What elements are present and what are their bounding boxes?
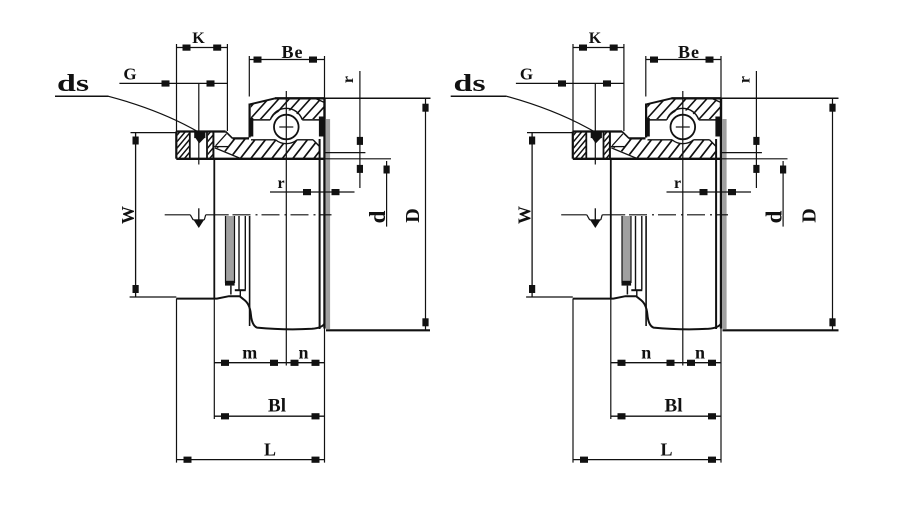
leader line from ds to set screw xyxy=(109,96,198,131)
svg-text:W: W xyxy=(515,206,535,224)
outer ring ball groove arc xyxy=(270,108,302,119)
label D rotated xyxy=(799,208,821,222)
dimension n and n line with arrows xyxy=(611,360,721,366)
outer ring top-left chamfer xyxy=(647,98,672,104)
dimension r horizontal line with arrows xyxy=(270,189,355,195)
r reference line xyxy=(326,152,366,154)
svg-text:Bl: Bl xyxy=(268,396,286,417)
locking collar left face xyxy=(175,132,177,159)
dimension K line with arrows xyxy=(573,45,624,51)
right seal xyxy=(715,117,721,137)
svg-text:D: D xyxy=(799,208,821,222)
outer ring left face xyxy=(645,104,647,138)
dimension L line with arrows xyxy=(573,457,721,463)
locking collar left face xyxy=(572,132,574,159)
outer ring right face xyxy=(323,98,325,328)
dimension Be line with arrows xyxy=(249,57,324,63)
inner ring raceway lands xyxy=(648,140,717,147)
label r xyxy=(277,175,284,192)
ball vertical center line xyxy=(682,91,684,366)
label K xyxy=(192,30,205,47)
outer ring top-right chamfer xyxy=(712,99,721,103)
outer ring left face lower part xyxy=(249,216,251,326)
label G xyxy=(123,65,136,84)
axis arrow at screw center xyxy=(587,208,602,228)
svg-text:K: K xyxy=(589,30,602,47)
svg-text:G: G xyxy=(123,65,136,84)
grey flinger bar xyxy=(225,216,235,295)
inner ring sleeve right face xyxy=(319,139,321,329)
right face extension below (dims) xyxy=(720,329,722,463)
label r xyxy=(674,175,681,192)
set screw slot edges xyxy=(190,132,207,159)
axis line xyxy=(165,214,332,216)
collar hatching right xyxy=(180,129,241,163)
flinger edge lines xyxy=(631,216,642,297)
inner ring ball groove arc xyxy=(276,140,298,144)
svg-text:G: G xyxy=(520,65,533,84)
left extension line below (L) xyxy=(572,299,574,463)
label W xyxy=(515,206,535,224)
outer ring top surface xyxy=(672,97,722,99)
dimension B1 line with arrows xyxy=(611,413,721,419)
dimension G line with arrows xyxy=(119,80,227,86)
svg-text:Be: Be xyxy=(282,42,304,62)
label n xyxy=(641,343,651,363)
label K xyxy=(589,30,602,47)
left seal xyxy=(249,118,254,137)
label Be xyxy=(282,42,304,62)
right face extension above (Be) xyxy=(720,56,722,98)
left extension line below (L) xyxy=(176,299,178,463)
sleeve left face and B1 extension xyxy=(610,159,612,419)
dimension B1 line with arrows xyxy=(214,413,324,419)
outer ring hatching xyxy=(622,95,742,123)
outer ring right face xyxy=(720,98,722,328)
label r rotated xyxy=(340,76,357,83)
svg-text:K: K xyxy=(192,30,205,47)
dimension W extension lines xyxy=(526,133,573,297)
inner ring ball groove arc xyxy=(672,140,694,144)
svg-text:ds: ds xyxy=(454,71,486,97)
outer ring bore lands xyxy=(251,119,324,121)
label n xyxy=(298,343,308,363)
axis line xyxy=(561,214,728,216)
dimension d line with arrow xyxy=(780,161,786,227)
svg-text:d: d xyxy=(365,210,390,223)
set screw center line xyxy=(594,83,596,164)
svg-text:ds: ds xyxy=(57,71,89,97)
inner ring hatching xyxy=(196,135,343,162)
svg-text:r: r xyxy=(277,175,284,192)
outer ring ball groove arc xyxy=(667,108,699,119)
outer ring top extension line to D xyxy=(721,97,839,99)
bore extension line to d xyxy=(325,158,392,160)
r reference line xyxy=(722,152,762,154)
inner ring sleeve right face xyxy=(715,139,717,329)
ball xyxy=(274,115,299,140)
svg-text:L: L xyxy=(660,440,672,460)
dimension r vertical line with arrows xyxy=(753,71,759,188)
collar hatching left xyxy=(149,129,220,163)
label L xyxy=(264,440,276,460)
locking collar top surface xyxy=(573,130,622,132)
dimension d line with arrow xyxy=(384,161,390,227)
sleeve left end edges xyxy=(611,134,637,159)
bore line xyxy=(176,158,324,160)
bottom extension line to D xyxy=(723,329,839,331)
left seal xyxy=(645,118,650,137)
collar hatching right xyxy=(576,129,637,163)
outer ring top surface xyxy=(275,97,325,99)
leader line from ds to set screw xyxy=(507,96,594,131)
label n xyxy=(695,343,705,363)
exposed sleeve top surface xyxy=(233,137,249,139)
label m xyxy=(242,343,257,363)
dimension K extension lines xyxy=(177,44,228,132)
svg-text:m: m xyxy=(242,343,257,363)
dimension K extension lines xyxy=(573,44,624,132)
right seal xyxy=(319,117,325,137)
dimension W line with arrows xyxy=(529,133,535,297)
label Bl xyxy=(268,396,286,417)
collar bottom silhouette xyxy=(573,296,721,329)
bore extension line to d xyxy=(721,158,788,160)
svg-text:D: D xyxy=(402,208,424,222)
label d rotated xyxy=(762,210,787,223)
label ds with underline xyxy=(451,71,507,97)
set screw socket xyxy=(591,131,602,144)
dimension K line with arrows xyxy=(177,45,228,51)
svg-text:L: L xyxy=(264,440,276,460)
sleeve left end edges xyxy=(214,134,240,159)
dimension r vertical line with arrows xyxy=(357,71,363,188)
dimension r horizontal line with arrows xyxy=(667,189,752,195)
label W xyxy=(118,206,138,224)
collar inner boundary xyxy=(609,132,611,159)
svg-text:n: n xyxy=(298,343,308,363)
dimension D line with arrows xyxy=(422,98,428,330)
label G xyxy=(520,65,533,84)
svg-text:n: n xyxy=(641,343,651,363)
set screw center line xyxy=(198,83,200,164)
svg-text:n: n xyxy=(695,343,705,363)
label Be xyxy=(678,42,700,62)
collar top right chamfer xyxy=(622,132,629,139)
dimension Be extension line xyxy=(248,56,250,97)
exposed sleeve top surface xyxy=(629,137,645,139)
collar top right chamfer xyxy=(226,132,233,139)
dimension D line with arrows xyxy=(829,98,835,330)
ball center cross tick xyxy=(676,126,690,128)
svg-text:Be: Be xyxy=(678,42,700,62)
outer ring top-right chamfer xyxy=(316,99,325,103)
outer ring bore lands xyxy=(647,119,720,121)
ball center cross tick xyxy=(279,126,293,128)
set screw socket xyxy=(194,131,205,144)
label r rotated xyxy=(737,76,754,83)
outer ring hatching xyxy=(226,95,346,123)
svg-text:d: d xyxy=(762,210,787,223)
label Bl xyxy=(665,396,683,417)
dimension Be line with arrows xyxy=(646,57,721,63)
flinger edge lines xyxy=(235,216,246,297)
label L xyxy=(660,440,672,460)
ball xyxy=(671,115,696,140)
collar bottom silhouette xyxy=(176,296,324,329)
inner ring raceway lands xyxy=(251,140,320,147)
label D rotated xyxy=(402,208,424,222)
outer ring left face xyxy=(249,104,251,138)
right face extension below (dims) xyxy=(324,329,326,463)
dimension W extension lines xyxy=(130,133,177,297)
sleeve left face and B1 extension xyxy=(213,159,215,419)
svg-text:Bl: Bl xyxy=(665,396,683,417)
collar inner boundary xyxy=(212,132,214,159)
bore line xyxy=(573,158,721,160)
label ds with underline xyxy=(55,71,109,97)
locking collar top surface xyxy=(176,130,225,132)
grey slinger band on right face xyxy=(326,119,330,329)
svg-text:r: r xyxy=(737,76,754,83)
grey slinger band on right face xyxy=(722,119,726,329)
dimension W line with arrows xyxy=(133,133,139,297)
dimension m and n line with arrows xyxy=(214,360,324,366)
bottom extension line to D xyxy=(326,329,430,331)
outer ring top-left chamfer xyxy=(250,98,275,104)
right face extension above (Be) xyxy=(324,56,326,98)
outer ring top extension line to D xyxy=(325,97,431,99)
inner ring hatching xyxy=(592,135,739,162)
axis arrow at screw center xyxy=(190,208,205,228)
ball vertical center line xyxy=(285,91,287,366)
svg-text:r: r xyxy=(340,76,357,83)
dimension L line with arrows xyxy=(177,457,325,463)
svg-text:r: r xyxy=(674,175,681,192)
collar hatching left xyxy=(546,129,617,163)
dimension Be extension line xyxy=(645,56,647,97)
dimension G line with arrows xyxy=(516,80,624,86)
grey flinger bar xyxy=(622,216,632,295)
outer ring left face lower part xyxy=(645,216,647,326)
label d rotated xyxy=(365,210,390,223)
set screw slot edges xyxy=(586,132,603,159)
svg-text:W: W xyxy=(118,206,138,224)
